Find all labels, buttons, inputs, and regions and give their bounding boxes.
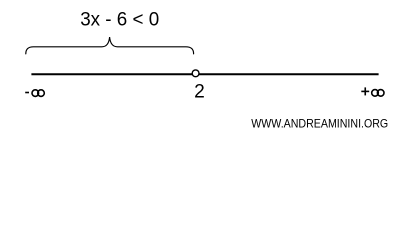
svg-text:3x - 6 < 0: 3x - 6 < 0: [80, 9, 159, 30]
svg-text:WWW.ANDREAMININI.ORG: WWW.ANDREAMININI.ORG: [251, 117, 388, 131]
svg-text:2: 2: [194, 81, 205, 102]
